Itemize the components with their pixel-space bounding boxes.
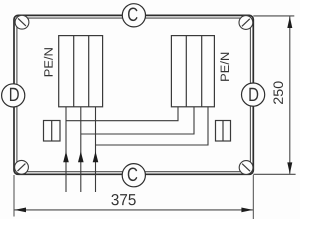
wire W3 (left block pole 3, incoming conductor) [95, 107, 97, 192]
arrow on wire W3 [93, 151, 99, 162]
enclosure outer wall [14, 15, 253, 174]
corner screw (top-right) [239, 16, 253, 30]
wire W2 (left block pole 2, incoming conductor) [80, 107, 82, 192]
corner screw (top-left) [15, 15, 29, 29]
callout C (top) [122, 4, 145, 27]
callout D (right) [242, 83, 265, 106]
callout letter D (left) [10, 88, 19, 101]
dimension 375: right arrowhead [241, 208, 253, 213]
callout letter C (bottom) [128, 167, 138, 181]
enclosure inner wall [17, 18, 251, 172]
callout letter C (top) [128, 7, 138, 21]
cable clamp (right) [216, 121, 231, 142]
dimension 250: top arrowhead [287, 17, 292, 29]
dimension 250: dimension line [289, 17, 291, 174]
wire jumper J1 (left pole 1 to right pole 1) [66, 107, 178, 121]
dimension 250: value text [273, 81, 283, 104]
terminal block X1 (left PE/N block) [59, 36, 103, 107]
arrow on wire W1 [63, 151, 69, 162]
wire jumper J3 (left pole 3 to right pole 3) [96, 107, 209, 145]
arrow on wire W2 [78, 151, 84, 162]
dimension 250: bottom extension line [253, 173, 295, 175]
wire W1 (left block pole 1, incoming conductor) [65, 107, 67, 192]
wire jumper J2 (left pole 2 to right pole 2) [81, 107, 194, 134]
dimension 375: value text [111, 194, 135, 205]
dimension 375: dimension line [15, 209, 253, 211]
callout D (left) [2, 84, 25, 107]
callout letter D (right) [249, 88, 258, 101]
corner screw (bottom-right) [239, 161, 253, 175]
dimension 375: right extension line [252, 175, 254, 219]
dimension 250: bottom arrowhead [287, 162, 292, 174]
terminal block X2 (right PE/N block) [171, 36, 214, 107]
dimension 250: top extension line [253, 15, 294, 17]
corner screw (bottom-left) [15, 160, 29, 174]
dimension 375: left extension line [13, 175, 15, 217]
label PE/N (left) [44, 48, 53, 76]
cable clamp (left) [44, 121, 61, 142]
label PE/N (right) [220, 53, 229, 81]
callout C (bottom) [122, 164, 145, 187]
dimension 375: left arrowhead [15, 208, 27, 213]
